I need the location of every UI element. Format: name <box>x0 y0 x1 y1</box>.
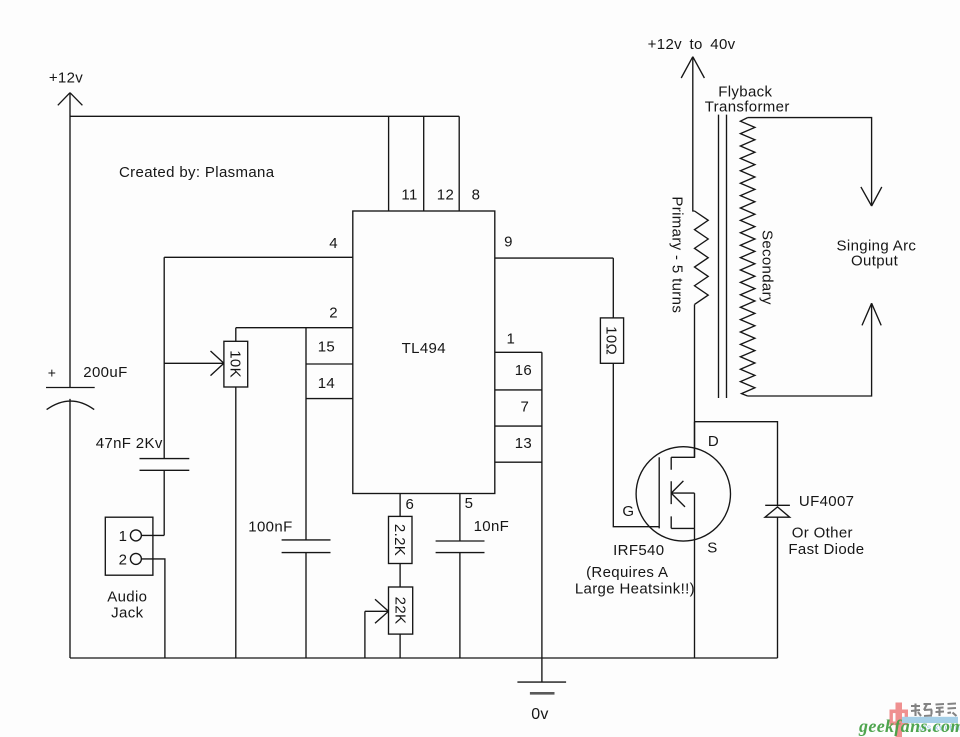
capacitor C2 47nF 2Kv <box>140 459 190 471</box>
Q1 gate plate <box>658 457 660 528</box>
wire right pins stub vertical <box>541 352 543 658</box>
wire pin 5 vertical to rail <box>459 494 461 659</box>
wire pins 15/14 stub verticals <box>305 328 307 540</box>
diode D1 triangle <box>765 507 790 517</box>
wire pin 4 horizontal <box>164 256 353 258</box>
wire pin 1 horizontal <box>495 351 542 353</box>
svg-text:Or Other: Or Other <box>792 524 853 541</box>
wire wiper arrow to 10K pot <box>164 351 224 376</box>
svg-text:S: S <box>707 539 717 556</box>
svg-text:Transformer: Transformer <box>705 99 790 116</box>
wire pin4 branch vertical to 47nF <box>163 257 165 458</box>
transistor Q1 IRF540 circle <box>636 447 730 541</box>
Q1 channel dashes <box>670 457 672 528</box>
resistor R1 10 ohm body <box>600 318 623 363</box>
power symbol +12v arrow <box>58 93 83 106</box>
wire secondary bottom to output <box>748 303 872 396</box>
svg-text:1: 1 <box>506 331 515 348</box>
wire jack pin1 to C2 <box>141 534 164 536</box>
watermark blue band text <box>902 717 960 733</box>
wire pin 15/14 divider <box>306 363 353 365</box>
svg-text:TL494: TL494 <box>402 340 446 357</box>
wire primary bottom to drain <box>694 304 696 457</box>
op-amp U1 TL494 box <box>353 211 495 494</box>
svg-text:10K: 10K <box>227 350 244 378</box>
svg-text:200uF: 200uF <box>83 364 127 381</box>
T1 core line 2 <box>726 115 728 398</box>
Q1 source tap <box>671 493 694 528</box>
svg-text:5: 5 <box>465 495 474 512</box>
wire +12-40v to primary top <box>693 57 695 211</box>
svg-text:10nF: 10nF <box>474 518 510 535</box>
wire pin 12 vertical <box>423 116 425 211</box>
wire top rail <box>70 115 459 117</box>
ground symbol stub <box>541 658 543 682</box>
J1 pin 1 circle <box>130 530 141 541</box>
capacitor C4 10nF <box>436 541 485 553</box>
svg-text:2: 2 <box>329 305 338 322</box>
svg-text:11: 11 <box>401 186 417 203</box>
resistor VR2 22K pot body <box>389 587 413 634</box>
svg-text:14: 14 <box>318 375 335 392</box>
svg-text:2.2K: 2.2K <box>391 524 408 556</box>
wire pot bottom to ground rail <box>235 387 237 658</box>
connector J1 audio jack box <box>105 517 153 575</box>
wire pin 2 horizontal <box>236 327 353 329</box>
watermark chinese brush text (gray) <box>911 704 957 717</box>
ground bar 1 <box>517 681 566 683</box>
wire pin 14 bottom <box>306 398 353 400</box>
svg-text:+12v to 40v: +12v to 40v <box>648 36 736 53</box>
svg-text:6: 6 <box>405 496 414 513</box>
svg-text:geekfans.com: geekfans.com <box>858 716 960 736</box>
wire source to ground rail <box>694 528 696 658</box>
wire pin 8 vertical <box>458 116 460 211</box>
svg-text:+12v: +12v <box>49 70 83 87</box>
T1 core line 1 <box>718 115 720 398</box>
diode D1 UF4007 cathode bar <box>765 504 790 506</box>
wire VR2 wiper arrow <box>365 599 389 623</box>
svg-text:Output: Output <box>851 253 899 270</box>
wire R1 to gate <box>613 363 659 526</box>
capacitor C3 100nF <box>282 540 331 553</box>
wire pin 11 vertical <box>388 116 390 211</box>
output arrow down <box>861 187 882 206</box>
wire C2 to audio jack pin1 <box>163 470 165 535</box>
svg-text:Secondary: Secondary <box>759 230 776 305</box>
wire pin 9 down to R1 <box>612 258 614 318</box>
wire VR2 bottom to rail <box>399 634 401 658</box>
svg-text:(Requires A: (Requires A <box>586 564 668 581</box>
svg-text:2: 2 <box>119 552 128 569</box>
wire pin 6 stub <box>399 494 401 517</box>
output arrow up <box>862 303 881 325</box>
svg-text:22K: 22K <box>391 597 408 625</box>
wire VR2 wiper to rail <box>364 611 366 658</box>
svg-text:+: + <box>48 364 57 380</box>
svg-text:IRF540: IRF540 <box>613 542 664 559</box>
svg-text:Audio: Audio <box>107 588 147 605</box>
wire diode anode to rail <box>777 517 779 658</box>
svg-text:0v: 0v <box>531 706 549 723</box>
capacitor C1 200uF polarized <box>46 388 95 410</box>
svg-text:Large Heatsink!!): Large Heatsink!!) <box>575 580 695 597</box>
svg-text:G: G <box>622 503 634 520</box>
svg-text:9: 9 <box>504 234 513 251</box>
svg-text:Jack: Jack <box>111 605 143 622</box>
svg-text:4: 4 <box>329 235 338 252</box>
svg-text:7: 7 <box>521 398 530 415</box>
wire left vertical rail from +12v to bottom rail <box>69 93 71 658</box>
transformer T1 primary winding <box>695 211 709 304</box>
wire pin 13 bottom <box>495 461 542 463</box>
Q1 drain tap <box>671 422 694 458</box>
resistor VR1 10K pot body <box>224 341 248 387</box>
svg-text:16: 16 <box>515 362 532 379</box>
wire drain node to diode branch <box>695 422 778 506</box>
wire pin 16/7 divider <box>495 389 542 391</box>
wire C3 bottom to rail <box>305 553 307 658</box>
Q1 body tap with arrow <box>671 481 694 507</box>
power symbol +12v to 40v arrow <box>681 57 704 78</box>
watermark logo (salmon) <box>890 703 909 737</box>
resistor R2 2.2K body <box>389 516 413 563</box>
ground bar 2 <box>530 692 555 695</box>
svg-text:8: 8 <box>472 186 481 203</box>
wire secondary top to output <box>748 118 872 206</box>
wire pot top to pin 2 <box>235 328 237 342</box>
transformer T1 secondary winding <box>740 118 755 396</box>
svg-text:D: D <box>708 433 719 450</box>
svg-text:UF4007: UF4007 <box>799 493 854 510</box>
svg-text:15: 15 <box>318 339 335 356</box>
svg-text:10Ω: 10Ω <box>603 326 620 355</box>
svg-text:100nF: 100nF <box>248 519 292 536</box>
svg-text:Fast Diode: Fast Diode <box>788 541 864 558</box>
wire bottom ground rail <box>70 657 778 659</box>
svg-text:12: 12 <box>437 186 454 203</box>
wire pin 7/13 divider <box>495 425 542 427</box>
svg-text:Primary - 5 turns: Primary - 5 turns <box>669 196 686 313</box>
svg-text:47nF 2Kv: 47nF 2Kv <box>96 435 163 452</box>
wire R2 to VR2 <box>399 564 401 588</box>
svg-text:13: 13 <box>515 435 532 452</box>
svg-text:1: 1 <box>119 528 128 545</box>
J1 pin 2 circle <box>130 553 141 564</box>
wire jack pin2 to ground rail <box>141 559 165 658</box>
wire pin 9 horizontal <box>495 257 614 259</box>
svg-text:Created by: Plasmana: Created by: Plasmana <box>119 164 275 181</box>
